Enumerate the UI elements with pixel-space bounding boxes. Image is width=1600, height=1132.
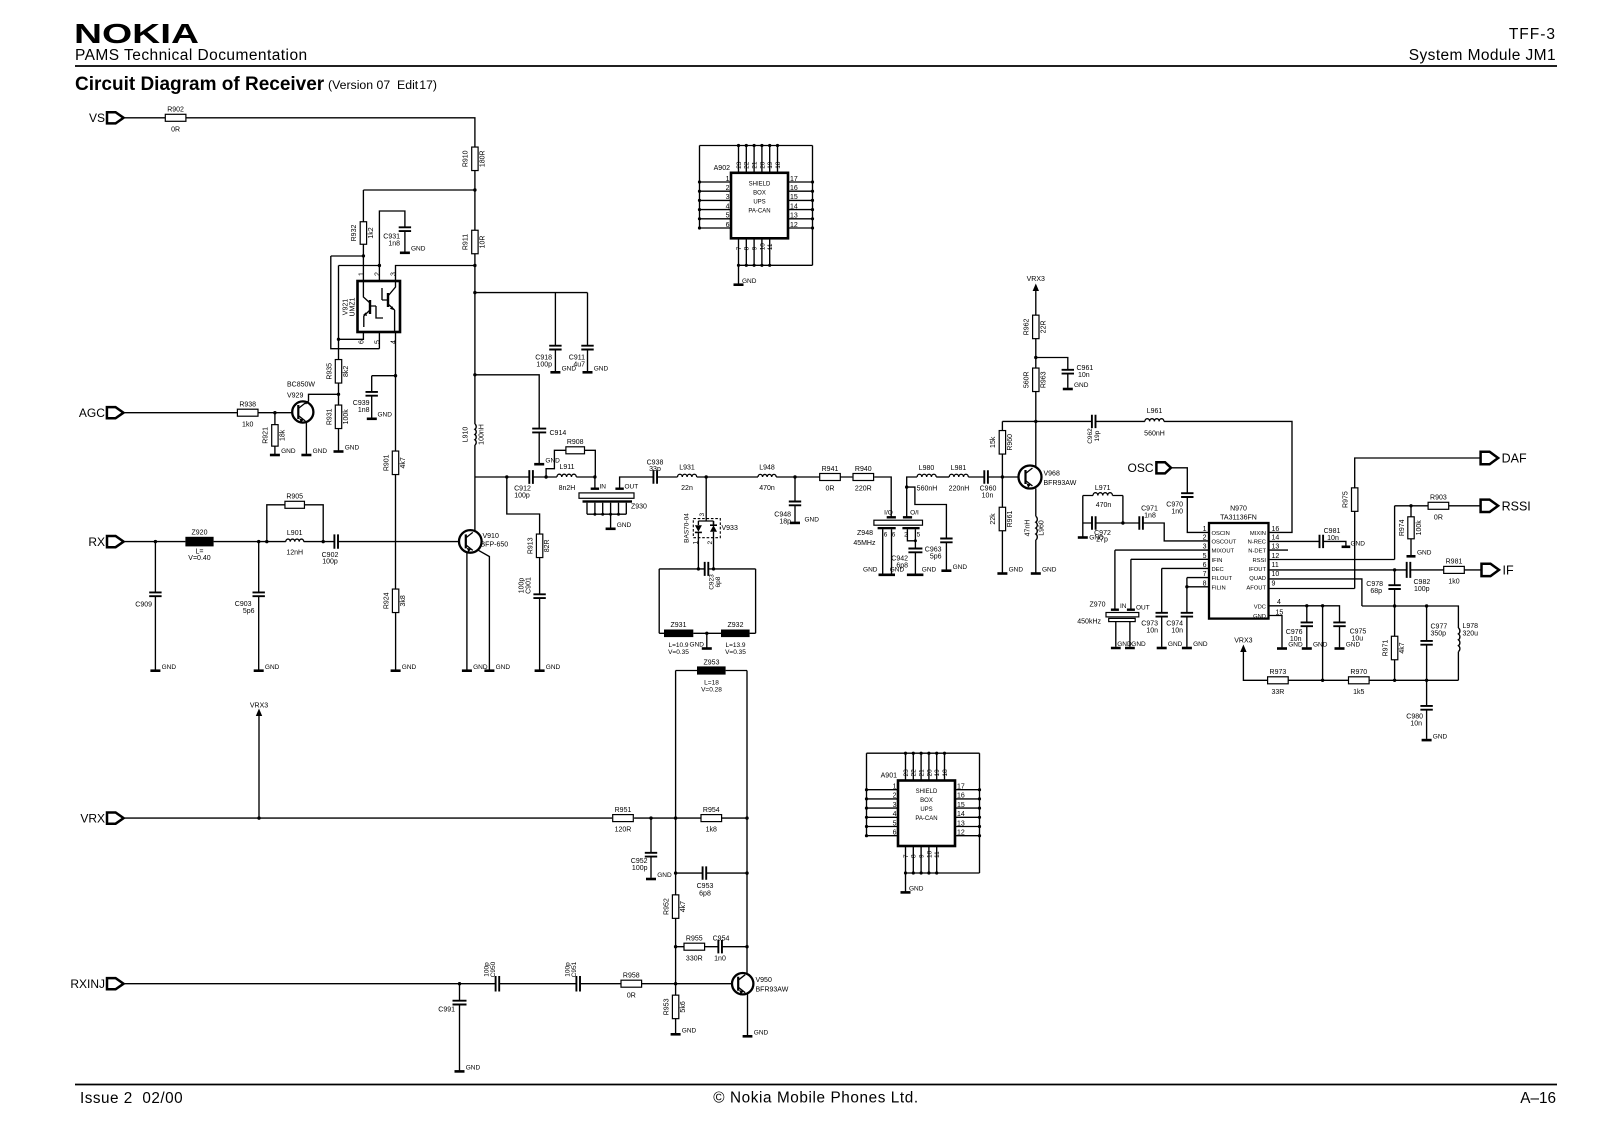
svg-text:2: 2 bbox=[726, 185, 730, 192]
svg-text:AFOUT: AFOUT bbox=[1246, 585, 1266, 591]
svg-text:R958: R958 bbox=[623, 973, 640, 980]
svg-text:VS: VS bbox=[89, 111, 105, 125]
svg-text:L978: L978 bbox=[1463, 623, 1479, 630]
svg-text:DAF: DAF bbox=[1502, 452, 1527, 466]
svg-text:5p6: 5p6 bbox=[930, 554, 942, 561]
svg-text:C914: C914 bbox=[550, 430, 567, 437]
svg-text:6p8: 6p8 bbox=[699, 891, 711, 898]
svg-text:C939: C939 bbox=[353, 400, 370, 407]
svg-text:11: 11 bbox=[934, 851, 941, 858]
svg-text:O/I: O/I bbox=[910, 510, 919, 517]
svg-text:R921: R921 bbox=[263, 427, 270, 444]
svg-text:10n: 10n bbox=[1327, 535, 1339, 542]
svg-text:GND: GND bbox=[805, 517, 820, 524]
svg-text:6: 6 bbox=[359, 340, 366, 344]
svg-text:GND: GND bbox=[754, 1029, 769, 1036]
svg-text:18: 18 bbox=[775, 161, 782, 169]
svg-text:L901: L901 bbox=[287, 530, 303, 537]
svg-text:1k0: 1k0 bbox=[242, 421, 253, 428]
svg-text:R941: R941 bbox=[822, 466, 839, 473]
svg-text:VRX: VRX bbox=[80, 811, 105, 825]
svg-text:13: 13 bbox=[790, 213, 798, 220]
svg-text:C977: C977 bbox=[1431, 624, 1448, 631]
svg-text:N-DET: N-DET bbox=[1248, 549, 1266, 555]
svg-text:A–16: A–16 bbox=[1520, 1090, 1556, 1107]
svg-text:GND: GND bbox=[265, 664, 280, 671]
svg-text:V=0.40: V=0.40 bbox=[188, 555, 210, 562]
svg-text:47nH: 47nH bbox=[1024, 520, 1031, 537]
svg-text:© Nokia Mobile Phones Ltd.: © Nokia Mobile Phones Ltd. bbox=[713, 1090, 918, 1107]
svg-text:3: 3 bbox=[726, 194, 730, 201]
svg-text:1n0: 1n0 bbox=[1171, 509, 1183, 516]
svg-text:GND: GND bbox=[1074, 382, 1089, 389]
svg-text:C975: C975 bbox=[1350, 628, 1367, 635]
svg-text:GND: GND bbox=[466, 1065, 481, 1072]
svg-text:C973: C973 bbox=[1141, 621, 1158, 628]
svg-text:7: 7 bbox=[903, 854, 910, 858]
svg-text:3k8: 3k8 bbox=[400, 595, 407, 606]
svg-text:V=0.35: V=0.35 bbox=[725, 649, 746, 656]
svg-text:C978: C978 bbox=[1366, 581, 1383, 588]
svg-text:R938: R938 bbox=[239, 402, 256, 409]
svg-text:R961: R961 bbox=[1007, 511, 1014, 528]
svg-text:C901: C901 bbox=[526, 577, 533, 594]
svg-text:GND: GND bbox=[545, 457, 560, 464]
svg-text:R924: R924 bbox=[383, 592, 390, 609]
svg-text:OUT: OUT bbox=[1136, 605, 1150, 612]
svg-text:100k: 100k bbox=[1416, 520, 1423, 536]
svg-text:GND: GND bbox=[1042, 567, 1057, 574]
svg-text:GND: GND bbox=[1288, 642, 1303, 649]
svg-text:10n: 10n bbox=[1078, 372, 1090, 379]
svg-text:IN: IN bbox=[600, 484, 607, 491]
svg-text:22k: 22k bbox=[990, 513, 997, 525]
svg-text:1: 1 bbox=[1203, 526, 1207, 533]
svg-text:10n: 10n bbox=[1410, 721, 1422, 728]
svg-text:4k7: 4k7 bbox=[1399, 642, 1406, 653]
svg-text:Z948: Z948 bbox=[857, 530, 873, 537]
svg-text:R913: R913 bbox=[527, 537, 534, 554]
svg-text:R970: R970 bbox=[1350, 669, 1367, 676]
svg-text:20: 20 bbox=[926, 769, 933, 777]
svg-text:PA-CAN: PA-CAN bbox=[915, 816, 937, 822]
svg-text:6: 6 bbox=[884, 532, 888, 539]
svg-text:R931: R931 bbox=[326, 408, 333, 425]
svg-text:20: 20 bbox=[759, 161, 766, 169]
svg-text:45MHz: 45MHz bbox=[853, 540, 876, 547]
svg-text:SHIELD: SHIELD bbox=[749, 181, 771, 187]
svg-text:C960: C960 bbox=[980, 486, 997, 493]
svg-text:PAMS Technical Documentation: PAMS Technical Documentation bbox=[75, 47, 308, 64]
svg-text:GND: GND bbox=[1253, 614, 1266, 620]
svg-text:1: 1 bbox=[359, 272, 366, 276]
svg-text:18k: 18k bbox=[279, 429, 286, 441]
svg-text:R901: R901 bbox=[383, 454, 390, 471]
svg-text:180R: 180R bbox=[479, 150, 486, 167]
svg-text:10n: 10n bbox=[1171, 628, 1183, 635]
svg-text:10R: 10R bbox=[479, 236, 486, 249]
svg-text:1k0: 1k0 bbox=[1448, 579, 1459, 586]
svg-text:19: 19 bbox=[934, 769, 941, 777]
svg-text:GND: GND bbox=[922, 567, 937, 574]
svg-text:N-REC: N-REC bbox=[1248, 540, 1266, 546]
svg-text:C911: C911 bbox=[569, 355, 585, 362]
svg-text:10: 10 bbox=[926, 850, 933, 858]
svg-text:23: 23 bbox=[903, 769, 910, 777]
svg-text:R905: R905 bbox=[286, 494, 303, 501]
svg-text:22: 22 bbox=[744, 161, 751, 169]
svg-text:6: 6 bbox=[892, 532, 896, 539]
svg-text:AGC: AGC bbox=[79, 406, 105, 420]
svg-text:GND: GND bbox=[1117, 641, 1132, 648]
svg-text:GND: GND bbox=[1089, 535, 1104, 542]
svg-text:3: 3 bbox=[893, 802, 897, 809]
svg-text:22: 22 bbox=[911, 769, 918, 777]
svg-text:C951: C951 bbox=[571, 961, 578, 977]
svg-text:68p: 68p bbox=[1370, 588, 1382, 595]
svg-text:C981: C981 bbox=[1324, 528, 1341, 535]
svg-text:Z953: Z953 bbox=[704, 660, 720, 667]
svg-text:Circuit Diagram of Receiver: Circuit Diagram of Receiver bbox=[75, 74, 325, 95]
svg-text:C954: C954 bbox=[713, 936, 730, 943]
svg-text:10: 10 bbox=[759, 243, 766, 251]
svg-text:16: 16 bbox=[957, 793, 965, 800]
svg-text:5: 5 bbox=[893, 820, 897, 827]
svg-text:9: 9 bbox=[752, 246, 759, 250]
svg-text:6p8: 6p8 bbox=[715, 576, 722, 587]
svg-text:GND: GND bbox=[1313, 642, 1328, 649]
svg-text:GND: GND bbox=[953, 564, 968, 571]
svg-text:560nH: 560nH bbox=[1144, 431, 1165, 438]
svg-text:R971: R971 bbox=[1382, 640, 1389, 657]
svg-text:OUT: OUT bbox=[625, 484, 639, 491]
svg-text:33R: 33R bbox=[1271, 689, 1284, 696]
svg-text:11: 11 bbox=[1272, 562, 1279, 569]
svg-text:VRX3: VRX3 bbox=[250, 703, 268, 710]
svg-text:L960: L960 bbox=[1039, 520, 1046, 536]
svg-text:C974: C974 bbox=[1166, 621, 1183, 628]
svg-text:13: 13 bbox=[957, 820, 965, 827]
svg-text:4: 4 bbox=[391, 340, 398, 344]
svg-text:V=0.35: V=0.35 bbox=[668, 649, 689, 656]
svg-text:R962: R962 bbox=[1024, 318, 1031, 335]
svg-text:V950: V950 bbox=[756, 977, 772, 984]
svg-text:L948: L948 bbox=[759, 465, 775, 472]
svg-text:C952: C952 bbox=[631, 858, 648, 865]
svg-text:5: 5 bbox=[917, 532, 921, 539]
svg-text:2: 2 bbox=[904, 532, 908, 539]
svg-text:RX: RX bbox=[88, 535, 105, 549]
svg-text:GND: GND bbox=[496, 664, 511, 671]
svg-text:GND: GND bbox=[345, 445, 360, 452]
svg-text:6: 6 bbox=[726, 222, 730, 229]
svg-text:RSSI: RSSI bbox=[1502, 499, 1531, 513]
svg-text:4u7: 4u7 bbox=[573, 362, 585, 369]
svg-text:R911: R911 bbox=[463, 234, 470, 250]
svg-text:9: 9 bbox=[1272, 580, 1276, 587]
svg-text:C963: C963 bbox=[925, 547, 942, 554]
svg-text:10n: 10n bbox=[982, 493, 994, 500]
svg-text:R954: R954 bbox=[703, 807, 720, 814]
svg-text:BC850W: BC850W bbox=[287, 382, 315, 389]
svg-text:GND: GND bbox=[1351, 540, 1366, 547]
svg-text:17: 17 bbox=[957, 784, 965, 791]
svg-text:15k: 15k bbox=[990, 436, 997, 448]
svg-text:1n0: 1n0 bbox=[714, 955, 726, 962]
svg-text:Z931: Z931 bbox=[671, 622, 687, 629]
svg-text:A901: A901 bbox=[881, 773, 897, 780]
svg-text:19p: 19p bbox=[1094, 430, 1101, 441]
svg-text:Z970: Z970 bbox=[1090, 602, 1106, 609]
svg-text:C970: C970 bbox=[1166, 502, 1183, 509]
svg-text:1n8: 1n8 bbox=[358, 407, 370, 414]
svg-text:TFF-3: TFF-3 bbox=[1509, 26, 1556, 43]
svg-text:L980: L980 bbox=[919, 465, 935, 472]
svg-text:100p: 100p bbox=[519, 578, 526, 594]
svg-text:C950: C950 bbox=[490, 961, 497, 977]
svg-text:2: 2 bbox=[1203, 535, 1207, 542]
svg-text:6p8: 6p8 bbox=[896, 562, 908, 569]
svg-text:4: 4 bbox=[1277, 599, 1281, 606]
svg-text:V921: V921 bbox=[343, 299, 350, 315]
svg-text:16: 16 bbox=[790, 185, 798, 192]
svg-text:12: 12 bbox=[957, 830, 965, 837]
svg-text:Z920: Z920 bbox=[192, 530, 208, 537]
svg-text:GND: GND bbox=[1417, 549, 1432, 556]
svg-text:MIXOUT: MIXOUT bbox=[1212, 549, 1235, 555]
svg-text:R981: R981 bbox=[1446, 559, 1463, 566]
svg-text:L961: L961 bbox=[1147, 408, 1163, 415]
svg-text:V933: V933 bbox=[722, 525, 738, 532]
svg-text:GND: GND bbox=[1346, 642, 1361, 649]
svg-text:C980: C980 bbox=[1406, 714, 1423, 721]
svg-text:R955: R955 bbox=[686, 936, 703, 943]
svg-text:22R: 22R bbox=[1040, 320, 1047, 333]
svg-text:9: 9 bbox=[919, 854, 926, 858]
svg-text:GND: GND bbox=[546, 664, 561, 671]
svg-text:100p: 100p bbox=[514, 493, 530, 500]
svg-text:6: 6 bbox=[893, 830, 897, 837]
svg-text:21: 21 bbox=[752, 161, 759, 169]
svg-text:14: 14 bbox=[957, 811, 965, 818]
svg-text:L931: L931 bbox=[679, 465, 695, 472]
svg-text:L910: L910 bbox=[463, 427, 470, 443]
svg-text:GND: GND bbox=[1433, 733, 1448, 740]
svg-text:4: 4 bbox=[726, 203, 730, 210]
svg-text:GND: GND bbox=[690, 642, 705, 649]
svg-text:GND: GND bbox=[594, 366, 609, 373]
svg-text:GND: GND bbox=[1131, 641, 1146, 648]
svg-text:19: 19 bbox=[767, 161, 774, 169]
svg-text:10: 10 bbox=[1272, 571, 1280, 578]
svg-text:4: 4 bbox=[893, 811, 897, 818]
svg-text:L911: L911 bbox=[559, 464, 574, 471]
svg-text:RXINJ: RXINJ bbox=[70, 977, 105, 991]
svg-text:2: 2 bbox=[893, 793, 897, 800]
svg-text:C976: C976 bbox=[1286, 629, 1303, 636]
svg-text:L981: L981 bbox=[951, 465, 967, 472]
svg-text:GND: GND bbox=[411, 246, 426, 253]
svg-text:450kHz: 450kHz bbox=[1077, 619, 1101, 626]
svg-text:GND: GND bbox=[1193, 641, 1208, 648]
svg-text:14: 14 bbox=[1272, 535, 1280, 542]
svg-text:RSSI: RSSI bbox=[1252, 558, 1266, 564]
svg-text:OSC: OSC bbox=[1127, 461, 1153, 475]
svg-text:33p: 33p bbox=[649, 466, 661, 473]
svg-text:C931: C931 bbox=[383, 234, 400, 241]
svg-text:C982: C982 bbox=[1414, 579, 1431, 586]
svg-text:18: 18 bbox=[942, 769, 949, 777]
svg-text:560R: 560R bbox=[1024, 371, 1031, 388]
svg-text:100p: 100p bbox=[536, 362, 552, 369]
svg-text:470n: 470n bbox=[759, 485, 775, 492]
svg-text:0R: 0R bbox=[1434, 514, 1443, 521]
svg-text:21: 21 bbox=[919, 769, 926, 777]
svg-text:IN: IN bbox=[1120, 603, 1127, 610]
svg-text:V968: V968 bbox=[1044, 471, 1060, 478]
svg-text:8n2H: 8n2H bbox=[559, 485, 576, 492]
svg-text:100k: 100k bbox=[343, 409, 350, 425]
svg-text:GND: GND bbox=[909, 886, 924, 893]
svg-text:UPS: UPS bbox=[920, 807, 932, 813]
svg-text:350p: 350p bbox=[1431, 631, 1447, 638]
svg-text:N970: N970 bbox=[1230, 506, 1247, 513]
svg-text:100p: 100p bbox=[322, 559, 338, 566]
svg-text:R974: R974 bbox=[1399, 519, 1406, 536]
svg-text:18p: 18p bbox=[779, 519, 791, 526]
svg-text:I/O: I/O bbox=[884, 510, 893, 517]
svg-text:MIXIN: MIXIN bbox=[1250, 531, 1266, 537]
svg-text:100p: 100p bbox=[1414, 586, 1430, 593]
svg-text:PA-CAN: PA-CAN bbox=[748, 208, 770, 214]
svg-text:8: 8 bbox=[911, 854, 918, 858]
svg-text:V=0.28: V=0.28 bbox=[701, 686, 722, 693]
svg-text:1n8: 1n8 bbox=[388, 241, 400, 248]
svg-text:1k5: 1k5 bbox=[1353, 689, 1364, 696]
svg-text:R902: R902 bbox=[167, 107, 184, 114]
svg-text:FILOUT: FILOUT bbox=[1212, 576, 1233, 582]
svg-text:560nH: 560nH bbox=[917, 486, 938, 493]
svg-text:5k6: 5k6 bbox=[680, 1001, 687, 1012]
svg-text:Issue 2 02/00: Issue 2 02/00 bbox=[80, 1090, 183, 1107]
svg-text:SHIELD: SHIELD bbox=[916, 789, 938, 795]
svg-text:3: 3 bbox=[391, 272, 398, 276]
svg-text:FILIN: FILIN bbox=[1212, 585, 1226, 591]
svg-text:C912: C912 bbox=[514, 486, 531, 493]
svg-text:C918: C918 bbox=[535, 355, 552, 362]
svg-text:16: 16 bbox=[1272, 526, 1280, 533]
svg-text:V929: V929 bbox=[287, 393, 303, 400]
svg-text:V910: V910 bbox=[483, 533, 499, 540]
svg-text:C948: C948 bbox=[774, 512, 791, 519]
svg-text:0R: 0R bbox=[171, 126, 180, 133]
svg-text:GND: GND bbox=[162, 664, 177, 671]
svg-text:VRX3: VRX3 bbox=[1027, 276, 1045, 283]
svg-text:GND: GND bbox=[1168, 641, 1183, 648]
svg-text:8k2: 8k2 bbox=[343, 366, 350, 377]
svg-text:C909: C909 bbox=[135, 602, 152, 609]
svg-text:1: 1 bbox=[726, 176, 730, 183]
svg-text:System Module JM1: System Module JM1 bbox=[1409, 47, 1556, 64]
svg-text:GND: GND bbox=[1009, 567, 1024, 574]
svg-text:GND: GND bbox=[863, 567, 878, 574]
svg-text:R973: R973 bbox=[1270, 669, 1287, 676]
svg-text:5: 5 bbox=[375, 340, 382, 344]
svg-text:R903: R903 bbox=[1430, 495, 1447, 502]
svg-text:C961: C961 bbox=[1077, 365, 1094, 372]
svg-text:BAS70-04: BAS70-04 bbox=[684, 513, 691, 543]
svg-text:L971: L971 bbox=[1095, 485, 1111, 492]
svg-text:C903: C903 bbox=[235, 601, 252, 608]
svg-text:Z932: Z932 bbox=[728, 622, 744, 629]
svg-text:R908: R908 bbox=[567, 439, 584, 446]
svg-text:15: 15 bbox=[790, 194, 798, 201]
svg-text:GND: GND bbox=[281, 448, 296, 455]
svg-text:BFP-650: BFP-650 bbox=[481, 542, 509, 549]
svg-text:GND: GND bbox=[402, 664, 417, 671]
svg-text:GND: GND bbox=[617, 522, 632, 529]
svg-text:320u: 320u bbox=[1463, 630, 1479, 637]
svg-text:12: 12 bbox=[790, 222, 798, 229]
svg-text:R932: R932 bbox=[351, 225, 358, 242]
svg-text:R975: R975 bbox=[1343, 491, 1350, 508]
svg-text:BFR93AW: BFR93AW bbox=[1044, 480, 1077, 487]
svg-text:100p: 100p bbox=[632, 865, 648, 872]
svg-text:0R: 0R bbox=[627, 992, 636, 999]
svg-text:82R: 82R bbox=[544, 539, 551, 552]
svg-text:11: 11 bbox=[767, 243, 774, 250]
svg-text:OSCOUT: OSCOUT bbox=[1212, 540, 1237, 546]
svg-text:GND: GND bbox=[742, 278, 757, 285]
svg-text:100nH: 100nH bbox=[479, 424, 486, 445]
svg-text:TA31136FN: TA31136FN bbox=[1220, 515, 1257, 522]
svg-text:GND: GND bbox=[657, 872, 672, 879]
svg-text:UPS: UPS bbox=[753, 199, 765, 205]
svg-text:7: 7 bbox=[736, 246, 743, 250]
svg-text:OSCIN: OSCIN bbox=[1212, 531, 1230, 537]
svg-text:UMZ1: UMZ1 bbox=[350, 297, 357, 316]
svg-text:3: 3 bbox=[699, 513, 706, 517]
svg-text:23: 23 bbox=[736, 161, 743, 169]
svg-text:BOX: BOX bbox=[753, 190, 766, 196]
svg-text:12nH: 12nH bbox=[286, 550, 303, 557]
svg-text:IFIN: IFIN bbox=[1212, 558, 1223, 564]
svg-text:4k7: 4k7 bbox=[400, 457, 407, 468]
svg-text:10u: 10u bbox=[1352, 635, 1364, 642]
svg-text:330R: 330R bbox=[686, 955, 703, 962]
svg-text:R940: R940 bbox=[855, 466, 872, 473]
svg-text:0R: 0R bbox=[826, 486, 835, 493]
svg-text:VDC: VDC bbox=[1254, 605, 1266, 611]
svg-text:(Version 07 Edit 17): (Version 07 Edit 17) bbox=[328, 78, 437, 92]
svg-text:220R: 220R bbox=[855, 486, 872, 493]
svg-text:220nH: 220nH bbox=[949, 486, 970, 493]
svg-text:R953: R953 bbox=[663, 998, 670, 1015]
svg-text:DEC: DEC bbox=[1212, 567, 1224, 573]
svg-text:C991: C991 bbox=[438, 1007, 455, 1014]
svg-text:12: 12 bbox=[1272, 553, 1280, 560]
svg-text:1n8: 1n8 bbox=[1144, 512, 1156, 519]
svg-text:1k8: 1k8 bbox=[706, 827, 717, 834]
svg-text:GND: GND bbox=[313, 448, 328, 455]
svg-text:5p6: 5p6 bbox=[243, 608, 255, 615]
svg-text:R951: R951 bbox=[615, 807, 632, 814]
svg-text:R963: R963 bbox=[1040, 371, 1047, 388]
svg-text:10n: 10n bbox=[1146, 628, 1158, 635]
svg-text:GND: GND bbox=[378, 412, 393, 419]
svg-text:Z930: Z930 bbox=[631, 504, 647, 511]
svg-text:BFR93AW: BFR93AW bbox=[756, 987, 789, 994]
